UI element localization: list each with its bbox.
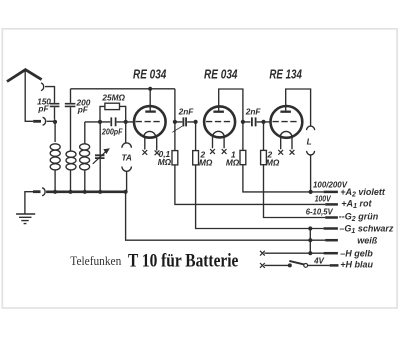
svg-text:+H blau: +H blau: [340, 260, 373, 270]
svg-text:6-10,5V: 6-10,5V: [306, 208, 334, 217]
svg-text:25MΩ: 25MΩ: [101, 93, 125, 103]
svg-text:–G1 schwarz: –G1 schwarz: [339, 223, 393, 235]
svg-text:TA: TA: [121, 153, 131, 163]
svg-text:--G2 grün: --G2 grün: [339, 211, 379, 223]
svg-text:RE 134: RE 134: [269, 67, 302, 82]
svg-text:L: L: [307, 136, 312, 146]
svg-text:RE 034: RE 034: [204, 67, 238, 82]
svg-text:T 10 für Batterie: T 10 für Batterie: [128, 251, 238, 272]
svg-text:Telefunken: Telefunken: [70, 253, 121, 268]
svg-text:200pF: 200pF: [101, 127, 123, 137]
svg-text:MΩ: MΩ: [266, 157, 280, 167]
svg-text:+A1 rot: +A1 rot: [341, 199, 372, 211]
svg-text:MΩ: MΩ: [199, 157, 213, 167]
svg-text:RE 034: RE 034: [133, 66, 167, 81]
svg-text:2nF: 2nF: [245, 107, 262, 117]
svg-text:–H gelb: –H gelb: [340, 249, 373, 259]
svg-text:100V: 100V: [315, 194, 332, 203]
svg-text:pF: pF: [37, 103, 49, 113]
svg-text:4V: 4V: [313, 256, 324, 265]
svg-text:MΩ: MΩ: [158, 157, 172, 167]
svg-text:pF: pF: [77, 104, 89, 114]
svg-text:MΩ: MΩ: [226, 157, 240, 167]
svg-text:weiß: weiß: [357, 235, 378, 245]
svg-text:+A2 violett: +A2 violett: [340, 187, 386, 199]
svg-text:2nF: 2nF: [178, 107, 195, 117]
